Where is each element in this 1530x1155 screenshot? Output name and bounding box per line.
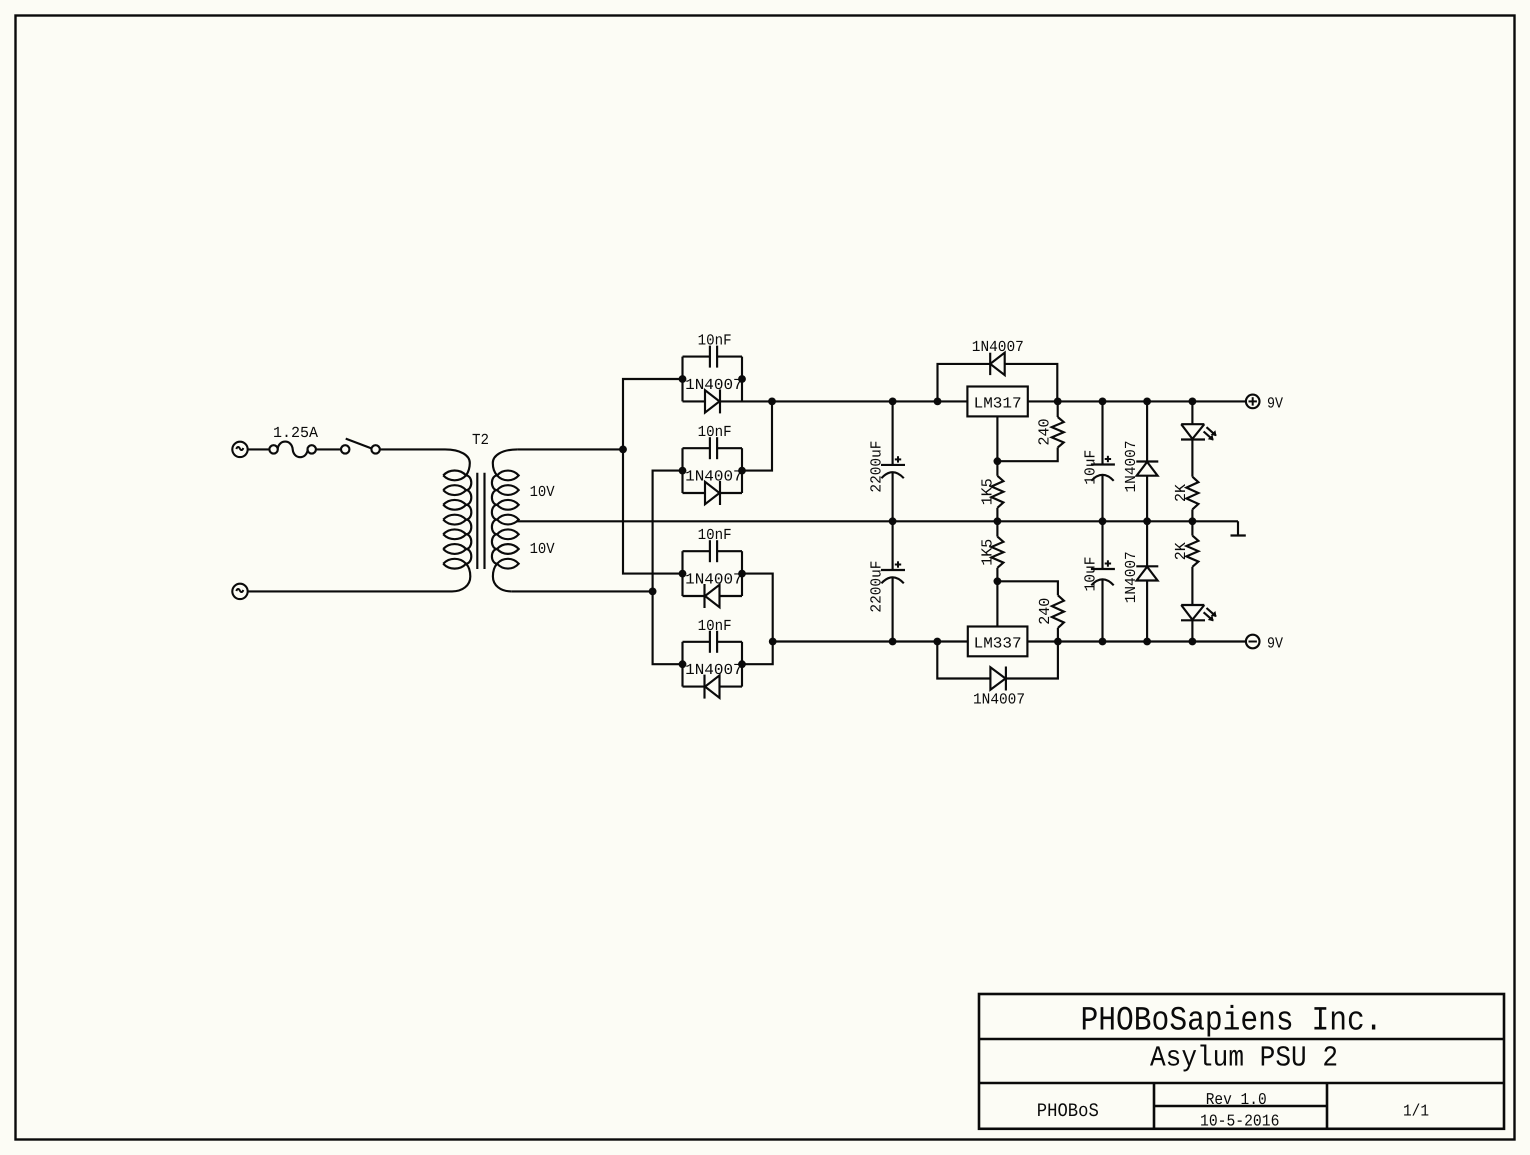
svg-text:T2: T2 <box>472 431 489 449</box>
node: secondary top junction <box>619 446 627 454</box>
svg-text:1N4007: 1N4007 <box>685 661 743 679</box>
terminal +9V output <box>1246 395 1260 409</box>
AC source terminal (line input, top) <box>232 442 247 457</box>
svg-text:10nF: 10nF <box>698 526 732 544</box>
resistor R3 1K5 (LM337 ADJ to 0V) <box>996 521 998 536</box>
resistor R5 2K (LED1) <box>1186 477 1198 510</box>
svg-text:10nF: 10nF <box>698 423 732 441</box>
node: -rail / C8 junction <box>1099 638 1107 646</box>
capacitor C5 2200uF (positive filter) <box>881 401 905 521</box>
capacitor C6 2200uF (negative filter) <box>881 521 905 641</box>
wire: positive rail (input side) <box>742 400 967 402</box>
svg-text:10nF: 10nF <box>698 617 732 635</box>
node: 0V / C7 junction <box>1099 517 1107 525</box>
fuse F1 1.25A <box>269 442 316 458</box>
svg-text:2200uF: 2200uF <box>867 441 885 493</box>
diode D8 1N4007 (negative output clamp) <box>1136 521 1158 641</box>
wire: AC top to fuse <box>248 448 270 450</box>
node: secondary bottom junction <box>649 588 657 596</box>
wire: transformer secondary top to bridge <box>518 448 623 450</box>
svg-text:Rev 1.0: Rev 1.0 <box>1206 1090 1267 1109</box>
svg-text:LM317: LM317 <box>974 394 1022 412</box>
svg-text:240: 240 <box>1036 598 1054 625</box>
svg-text:1/1: 1/1 <box>1403 1102 1429 1121</box>
node D3 anode junction <box>679 570 687 578</box>
resistor R4 240 (LM337) <box>997 581 1058 595</box>
node D3 cathode junction <box>738 570 746 578</box>
svg-text:2K: 2K <box>1172 541 1190 560</box>
wire: left bridge feed (secondary top) vertical <box>623 379 683 574</box>
switch SW1 <box>341 439 380 454</box>
svg-text:1K5: 1K5 <box>978 539 996 566</box>
node: +rail / LED1 junction <box>1189 398 1197 406</box>
svg-text:1N4007: 1N4007 <box>1122 551 1140 603</box>
diode D4 1N4007 with snubber capacitor C4 10nF <box>683 631 743 699</box>
node: -rail / D8 junction <box>1143 638 1151 646</box>
wire: D1/D2 outputs join (positive) <box>742 401 772 470</box>
svg-text:10V: 10V <box>530 483 556 501</box>
title block <box>979 994 1504 1129</box>
svg-text:10uF: 10uF <box>1081 557 1099 592</box>
svg-text:2200uF: 2200uF <box>867 561 885 613</box>
svg-text:1N4007: 1N4007 <box>1122 441 1140 493</box>
wire: fuse to switch <box>316 448 342 450</box>
wire: AC bottom to transformer primary <box>248 590 452 592</box>
svg-text:1N4007: 1N4007 <box>685 467 743 485</box>
svg-text:2K: 2K <box>1172 483 1190 502</box>
node: positive rectifier output <box>768 398 776 406</box>
node D2 cathode junction <box>738 467 746 475</box>
AC source terminal (line input, bottom) <box>232 584 247 599</box>
node: -rail / LED2 junction <box>1189 638 1197 646</box>
node: +rail / C7 junction <box>1099 398 1107 406</box>
node D4 anode junction <box>679 660 687 668</box>
node D2 anode junction <box>679 467 687 475</box>
capacitor C7 10uF (positive output) <box>1091 401 1115 521</box>
svg-text:9V: 9V <box>1267 634 1284 652</box>
svg-text:1N4007: 1N4007 <box>685 376 743 394</box>
node: -rail / C6 junction <box>889 638 897 646</box>
node: LM337 ADJ junction <box>994 577 1002 585</box>
diode D1 1N4007 with snubber capacitor C1 10nF <box>683 346 743 414</box>
protection diode D5 1N4007 (across LM317) <box>938 353 1058 402</box>
resistor R2 1K5 (LM317 ADJ to 0V) <box>996 461 998 476</box>
transformer T2 secondary winding <box>492 449 519 591</box>
wire: switch to transformer primary <box>380 448 445 450</box>
regulator U2 LM337 <box>968 627 1028 657</box>
node D1 anode junction <box>679 375 687 383</box>
LED LED1 (positive rail indicator) <box>1191 401 1193 424</box>
svg-text:LM337: LM337 <box>974 634 1022 652</box>
node D4 cathode junction <box>738 660 746 668</box>
node: +rail / C5 junction <box>889 398 897 406</box>
svg-text:10-5-2016: 10-5-2016 <box>1200 1111 1279 1130</box>
node: negative rectifier output <box>769 638 777 646</box>
node: LM337 output junction <box>1054 638 1062 646</box>
svg-text:240: 240 <box>1036 419 1054 446</box>
wire: LED1 to R5 <box>1191 440 1193 477</box>
wire: negative rail (input side) <box>773 640 968 642</box>
protection diode D6 1N4007 (across LM337) <box>937 642 1058 691</box>
node: LM337 input junction <box>933 638 941 646</box>
wire: LM337 ADJ pin <box>996 581 998 626</box>
diode D7 1N4007 (positive output clamp) <box>1136 401 1158 521</box>
wire: LM317 ADJ pin <box>996 416 998 461</box>
wire: D3/D4 outputs join (negative) <box>742 574 773 665</box>
LED LED2 (negative rail indicator) <box>1181 605 1217 621</box>
svg-text:9V: 9V <box>1267 394 1284 412</box>
wire: transformer secondary bottom to bridge <box>511 590 652 592</box>
wire: positive rail (output side) <box>1028 400 1246 402</box>
node: 0V / C5 junction <box>889 517 897 525</box>
diode D3 1N4007 with snubber capacitor C3 10nF <box>683 540 743 608</box>
svg-text:1N4007: 1N4007 <box>973 691 1025 709</box>
transformer T2 primary winding <box>443 449 471 591</box>
node: LM317 ADJ junction <box>994 457 1002 465</box>
node: 0V / 1K5 junction <box>994 517 1002 525</box>
node D1 cathode junction <box>738 375 746 383</box>
ground symbol <box>1231 521 1246 535</box>
node: +rail / D7 junction <box>1143 398 1151 406</box>
node: LM317 output junction <box>1054 398 1062 406</box>
svg-text:PHOBoSapiens Inc.: PHOBoSapiens Inc. <box>1081 1003 1383 1041</box>
node: 0V / R5 junction <box>1189 517 1197 525</box>
svg-text:Asylum PSU 2: Asylum PSU 2 <box>1150 1042 1338 1075</box>
svg-text:1N4007: 1N4007 <box>972 338 1024 356</box>
wire: negative rail (output side) <box>1027 640 1246 642</box>
node: 0V / D7 junction <box>1143 517 1151 525</box>
svg-text:10V: 10V <box>530 540 556 558</box>
node: LM317 input junction <box>934 398 942 406</box>
transformer T2 core <box>477 473 484 569</box>
wire: right bridge feed (secondary bottom) vertical <box>653 471 683 665</box>
terminal -9V output <box>1246 635 1260 649</box>
svg-text:1K5: 1K5 <box>978 478 996 505</box>
resistor R1 240 (LM317) <box>1057 401 1059 417</box>
svg-text:1.25A: 1.25A <box>273 424 319 442</box>
svg-text:1N4007: 1N4007 <box>685 570 743 588</box>
svg-text:10uF: 10uF <box>1081 450 1099 485</box>
svg-text:10nF: 10nF <box>698 332 732 350</box>
resistor R6 2K (LED2) <box>1191 521 1193 535</box>
regulator U1 LM317 <box>967 387 1027 417</box>
wire: center tap / 0V rail <box>517 520 1238 522</box>
svg-text:PHOBoS: PHOBoS <box>1037 1100 1099 1122</box>
diode D2 1N4007 with snubber capacitor C2 10nF <box>683 437 743 505</box>
capacitor C8 10uF (negative output) <box>1091 521 1115 641</box>
